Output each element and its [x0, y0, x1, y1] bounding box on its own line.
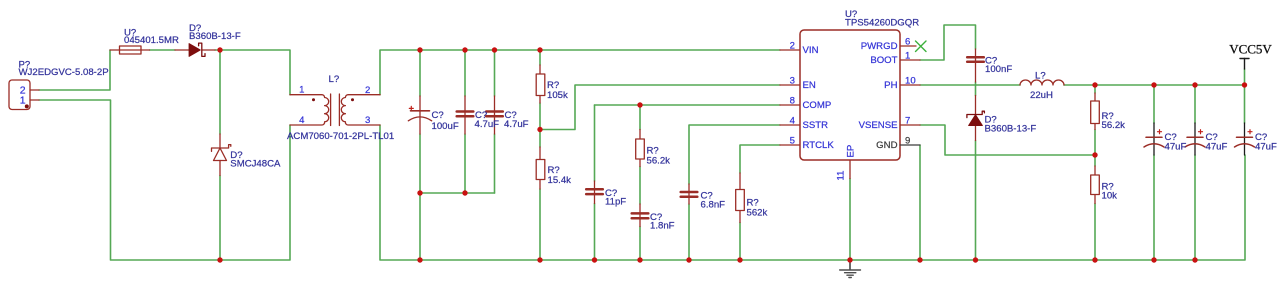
svg-text:VIN: VIN [803, 45, 819, 56]
choke L1 pin 3 [349, 124, 380, 126]
IC U2 body [800, 30, 900, 160]
svg-text:BOOT: BOOT [870, 55, 897, 66]
R562k bottom pin [739, 211, 741, 223]
junction (920,260) [917, 257, 922, 262]
capacitor C100uF top plate [411, 110, 430, 112]
wire VCC5V flag stem [1244, 69, 1246, 85]
svg-text:6.8nF: 6.8nF [701, 199, 726, 210]
R10k bottom pin [1094, 195, 1096, 204]
U2 pin 7 VSENSE [900, 124, 920, 126]
wire VSENSE to feedback node [920, 125, 1095, 155]
junction (740,260) [737, 257, 742, 262]
U2 pin 10 PH [900, 84, 920, 86]
capacitor C47uF(3) pin line [1244, 123, 1246, 155]
resistor R15.4k body [536, 160, 545, 180]
svg-text:562k: 562k [747, 207, 768, 218]
TVS D3 triangle [214, 148, 227, 161]
C6.8nF pin line [688, 184, 690, 204]
R562k top pin [739, 173, 741, 190]
R105k bottom pin [539, 96, 541, 104]
resistor R562k body [736, 190, 745, 211]
choke L1 right winding [341, 95, 348, 125]
junction (220,50) [217, 47, 222, 52]
junction (594.5,260) [592, 257, 597, 262]
diode D1 anode pin [175, 49, 189, 51]
wire C47uF(1) bottom [1153, 155, 1155, 260]
wire C4.7uF(2) top [494, 50, 496, 96]
choke L1 core lines [330, 94, 332, 126]
junction (640,105) [637, 102, 642, 107]
svg-text:TPS54260DGQR: TPS54260DGQR [845, 17, 919, 28]
wire PH pin to inductor [920, 84, 1020, 86]
svg-text:10k: 10k [1102, 190, 1118, 201]
wire connector pin2 to fuse [39, 50, 110, 90]
C1.8nF pin line [639, 204, 641, 227]
svg-text:6: 6 [905, 37, 910, 48]
U2 pin 1 BOOT [900, 59, 920, 61]
junction (1154,85) [1151, 82, 1156, 87]
junction (540,129.5) [537, 127, 542, 132]
choke L1 left winding [322, 95, 329, 125]
wire joining cap bottoms [420, 192, 495, 194]
connector P1 pin 1 [30, 99, 39, 101]
capacitor C47uF(2) plates [1187, 136, 1203, 138]
svg-text:15.4k: 15.4k [548, 175, 572, 186]
choke L1 pin 2 [349, 94, 380, 96]
junction (220,260) [217, 257, 222, 262]
wire C1.8nF bottom to ground rail [639, 227, 641, 261]
TVS D3 bar [212, 145, 231, 152]
svg-text:4.7uF: 4.7uF [504, 119, 529, 130]
junction (540,50) [537, 47, 542, 52]
resistor R56.2k FB body [1091, 101, 1100, 124]
capacitor C4.7uF(1) plates [457, 57, 984, 218]
junction (1095,260) [1092, 257, 1097, 262]
R15.4k top pin [539, 147, 541, 160]
wire C11pF bottom to ground rail [594, 204, 596, 261]
wire R56.2k bottom to C1.8nF top [639, 167, 641, 205]
svg-text:56.2k: 56.2k [1102, 120, 1126, 131]
svg-text:47uF: 47uF [1255, 141, 1277, 152]
wire GND pin down to ground rail [919, 145, 921, 260]
diode D1 triangle [189, 44, 200, 57]
wire inductor to VCC5V rail [1064, 85, 1245, 123]
junction (1244.5,85) [1242, 82, 1247, 87]
capacitor C100nF plates [967, 56, 984, 59]
wire COMP node down to R56.2k [639, 105, 641, 130]
capacitor C47uF(1) plates [1146, 136, 1162, 138]
wire R562k bottom to ground rail [739, 223, 741, 261]
junction (689,260) [686, 257, 691, 262]
svg-text:VSENSE: VSENSE [859, 120, 898, 131]
wire diode D1 to choke pin1 [215, 50, 290, 95]
wire connector pin1 / input return rail to choke pin4 [39, 100, 290, 260]
svg-text:RTCLK: RTCLK [803, 140, 835, 151]
wire R105k bottom to divider node [539, 103, 541, 130]
svg-text:L?: L? [1035, 71, 1046, 82]
junction (975.5,260) [973, 257, 978, 262]
svg-text:22uH: 22uH [1030, 90, 1053, 101]
wire C100uF bottom to ground rail [419, 134, 421, 260]
diode D2 schottky bar [967, 111, 985, 117]
svg-text:47uF: 47uF [1206, 141, 1228, 152]
C4.7uF pin lines [464, 96, 466, 134]
R15.4k bottom pin [539, 179, 541, 189]
wire R10k bottom to ground rail [1094, 204, 1096, 261]
junction (850,260) [847, 257, 852, 262]
wire RTCLK net [740, 145, 780, 173]
capacitor C47uF(1) pin line [1153, 123, 1155, 155]
capacitor C1.8nF plates [632, 212, 649, 215]
wire C47uF(2) bottom [1194, 155, 1196, 260]
wire divider node to EN pin [540, 85, 780, 130]
wire D2 bottom to ground rail [975, 141, 977, 261]
VCC5V power symbol [1240, 59, 1249, 70]
svg-text:4.7uF: 4.7uF [475, 119, 500, 130]
junction (1195,85) [1192, 82, 1197, 87]
wire node to TVS top [219, 50, 221, 134]
capacitor C47uF(3) plus [1248, 130, 1252, 134]
R56.2k COMP bottom pin [639, 159, 641, 167]
svg-text:SSTR: SSTR [803, 120, 829, 131]
capacitor C47uF(3) plates [1237, 136, 1253, 138]
capacitor C47uF(1) plus [1158, 130, 1162, 134]
choke L1 pin 4 [290, 124, 321, 126]
diode D1 cathode pin [202, 49, 215, 51]
svg-text:ACM7060-701-2PL-TL01: ACM7060-701-2PL-TL01 [287, 131, 394, 142]
wire R56.2k FB top [1094, 85, 1096, 93]
svg-text:EN: EN [803, 80, 816, 91]
wire node to R10k top [1094, 155, 1096, 166]
U2 EP pin [849, 160, 851, 179]
TVS D3 top pin [219, 134, 221, 148]
svg-text:3: 3 [790, 76, 795, 87]
svg-text:3: 3 [365, 115, 370, 126]
svg-text:1.8nF: 1.8nF [650, 221, 675, 232]
junction (494.5,50) [492, 47, 497, 52]
svg-text:11pF: 11pF [605, 197, 626, 208]
svg-text:2: 2 [790, 41, 795, 52]
capacitor C11pF plates [586, 188, 603, 191]
svg-text:1: 1 [299, 85, 304, 96]
junction (1195,260) [1192, 257, 1197, 262]
TVS D3 bottom pin [219, 161, 221, 176]
R105k top pin [539, 65, 541, 74]
junction (420,50) [417, 47, 422, 52]
capacitor C6.8nF plates [681, 191, 698, 194]
svg-text:8: 8 [790, 96, 795, 107]
U2 pin 5 RTCLK [780, 144, 800, 146]
wire C4.7uF(1) bottom [464, 134, 466, 193]
svg-text:VCC5V: VCC5V [1229, 42, 1272, 57]
R10k top pin [1094, 166, 1096, 175]
resistor R56.2k COMP body [636, 139, 645, 159]
connector P1 pin1 dot [25, 104, 29, 108]
svg-text:105k: 105k [547, 90, 568, 101]
svg-text:SMCJ48CA: SMCJ48CA [230, 159, 281, 170]
C11pF pin line [594, 181, 596, 204]
C100uF pin line [419, 96, 421, 134]
junction (420,260) [417, 257, 422, 262]
svg-text:56.2k: 56.2k [647, 156, 671, 167]
svg-text:5: 5 [790, 136, 795, 147]
U2 pin 3 EN [780, 84, 800, 86]
svg-text:4: 4 [299, 115, 305, 126]
U2 pin 6 PWRGD [900, 45, 916, 47]
wire COMP net [595, 104, 781, 106]
svg-text:B360B-13-F: B360B-13-F [189, 31, 241, 42]
svg-text:4: 4 [790, 116, 796, 127]
capacitor C100uF bottom plate arc [408, 117, 431, 121]
wire choke pin2 up to VIN rail [380, 50, 780, 95]
svg-text:47uF: 47uF [1165, 141, 1187, 152]
junction (1095,85) [1092, 82, 1097, 87]
choke L1 pin 1 [290, 94, 321, 96]
diode D1 schottky bar [199, 43, 205, 56]
junction (465,193) [462, 190, 467, 195]
wire C100uF top [419, 50, 421, 96]
svg-text:COMP: COMP [803, 100, 832, 111]
R56.2k COMP top pin [639, 130, 641, 140]
svg-text:GND: GND [876, 140, 897, 151]
svg-text:2: 2 [365, 85, 370, 96]
wire TVS bottom to input return rail [219, 176, 221, 261]
wire C4.7uF(2) bottom [494, 134, 496, 193]
svg-text:PWRGD: PWRGD [861, 41, 898, 52]
wire C47uF(2) top [1194, 85, 1196, 123]
junction (1154,260) [1151, 257, 1156, 262]
wire SSTR net [689, 125, 780, 184]
junction (465,50) [462, 47, 467, 52]
fuse U1 through-line [110, 49, 150, 51]
svg-text:B360B-13-F: B360B-13-F [985, 124, 1037, 135]
wire C6.8nF bottom to ground rail [688, 204, 690, 260]
R56.2k FB top pin [1094, 93, 1096, 101]
wire R56.2k FB bottom to node [1094, 130, 1096, 156]
choke L1 polarity dots [312, 98, 315, 101]
capacitor C47uF(2) pin line [1194, 123, 1196, 155]
wire EP pad to ground [849, 179, 851, 261]
connector P1 body [9, 80, 30, 110]
svg-text:WJ2EDGVC-5.08-2P: WJ2EDGVC-5.08-2P [19, 67, 109, 78]
svg-text:EP: EP [846, 145, 857, 158]
wire COMP down to C11pF [594, 105, 596, 181]
wire BOOT to C100nF [920, 25, 976, 60]
capacitor C100uF plus sign [409, 106, 413, 110]
junction (640,260) [637, 257, 642, 262]
svg-text:1: 1 [905, 51, 910, 62]
ground symbol [840, 260, 861, 278]
wire R105k top [539, 50, 541, 65]
D2 cathode pin [975, 96, 977, 115]
diode D2 triangle [969, 115, 983, 126]
svg-text:PH: PH [884, 80, 897, 91]
wire R15.4k bottom to ground rail [539, 189, 541, 260]
wire C4.7uF(1) top [464, 50, 466, 96]
fuse U1 body [120, 46, 142, 54]
svg-text:1: 1 [20, 94, 26, 106]
svg-text:11: 11 [836, 171, 847, 181]
wire fuse to diode D1 [150, 49, 176, 51]
svg-text:100uF: 100uF [432, 121, 459, 132]
svg-text:100nF: 100nF [985, 64, 1012, 75]
no-connect X on PWRGD [916, 41, 927, 52]
junction (420,193) [417, 190, 422, 195]
wire R15.4k top [539, 130, 541, 148]
junction (540,260) [537, 257, 542, 262]
resistor R10k body [1091, 175, 1100, 195]
capacitor C47uF(2) plus [1199, 130, 1203, 134]
wire choke pin3 down to power ground rail, rail to right end [380, 125, 1245, 260]
D2 anode pin [975, 126, 977, 141]
svg-text:9: 9 [905, 136, 910, 147]
connector P1 pin 2 [30, 89, 39, 91]
wire C100nF bottom to PH node [975, 82, 977, 85]
svg-text:045401.5MR: 045401.5MR [124, 35, 179, 46]
U2 pin 4 SSTR [780, 124, 800, 126]
svg-text:10: 10 [905, 76, 916, 87]
U2 pin 8 COMP [780, 104, 800, 106]
wire C47uF(1) top [1153, 85, 1155, 123]
wire PH node to D2 [975, 85, 977, 96]
R56.2k FB bottom pin [1094, 124, 1096, 130]
GND pin 9 line [900, 144, 920, 146]
svg-text:C?: C? [432, 110, 444, 121]
inductor L2 arcs [1020, 80, 1064, 85]
resistor R105k body [536, 74, 545, 96]
svg-text:L?: L? [329, 74, 340, 85]
C100nF pin line [975, 49, 977, 82]
junction (1095,155) [1092, 152, 1097, 157]
U2 pin 2 VIN [780, 49, 800, 51]
capacitor C4.7uF(2) plates [486, 110, 503, 113]
svg-text:7: 7 [905, 116, 910, 127]
